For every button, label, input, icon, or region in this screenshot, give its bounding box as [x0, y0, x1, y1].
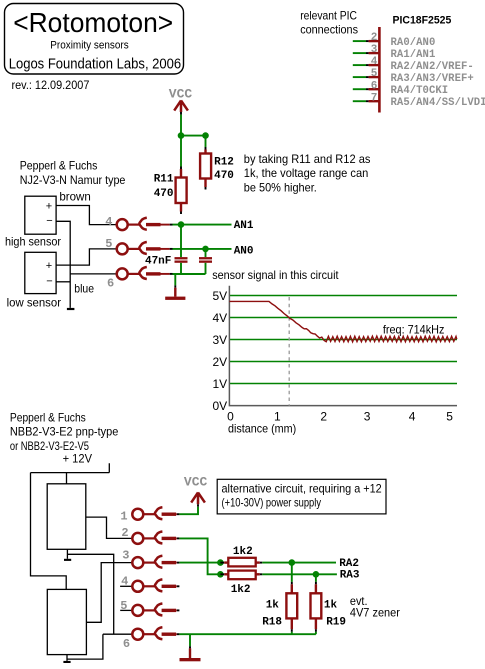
pin 4 wire	[353, 56, 474, 73]
svg-text:0V: 0V	[213, 399, 228, 413]
wire conn3 to RA2 row	[179, 562, 220, 564]
connector pin 5 (bottom)	[132, 604, 179, 616]
svg-text:+: +	[46, 260, 52, 272]
svg-text:RA2/AN2/VREF-: RA2/AN2/VREF-	[391, 61, 474, 73]
node dots at resistor inputs	[217, 559, 224, 566]
graph gridline 1V	[230, 383, 457, 385]
svg-text:4V: 4V	[213, 311, 228, 325]
wire conn6 to gnd bus	[173, 273, 206, 275]
svg-text:3: 3	[371, 44, 378, 56]
svg-text:5V: 5V	[213, 289, 228, 303]
wire box1 gnd to conn6 net	[67, 554, 113, 634]
svg-text:1k, the voltage range can: 1k, the voltage range can	[244, 166, 368, 180]
wire conn1 to VCC	[179, 507, 198, 515]
x axis labels	[227, 410, 453, 424]
pin 6 wire	[353, 80, 448, 97]
svg-text:AN0: AN0	[234, 245, 254, 257]
svg-text:RA1/AN1: RA1/AN1	[391, 49, 436, 61]
svg-text:Pepperl & Fuchs: Pepperl & Fuchs	[20, 158, 98, 172]
y axis labels	[213, 289, 228, 413]
svg-text:NJ2-V3-N Namur type: NJ2-V3-N Namur type	[20, 173, 126, 187]
svg-text:RA4/T0CKI: RA4/T0CKI	[391, 85, 449, 97]
svg-text:R18: R18	[262, 616, 282, 628]
svg-text:relevant PIC: relevant PIC	[300, 8, 357, 22]
wire conn4 stub	[120, 585, 132, 587]
wire low+ to conn5	[56, 249, 117, 265]
sensor high (box)	[25, 196, 56, 234]
svg-text:5: 5	[371, 68, 378, 80]
svg-text:47nF: 47nF	[145, 256, 171, 268]
title block frame	[5, 4, 184, 75]
wire conn6 lead	[103, 633, 133, 635]
annotation note	[244, 152, 371, 195]
connector pin 6 (bottom)	[132, 627, 179, 639]
svg-text:rev.: 12.09.2007: rev.: 12.09.2007	[12, 78, 90, 92]
alternative circuit note box	[217, 479, 386, 514]
svg-text:Pepperl & Fuchs: Pepperl & Fuchs	[10, 410, 86, 424]
wire box2 output to conn3	[86, 563, 132, 623]
svg-text:connections: connections	[300, 23, 358, 37]
svg-text:sensor signal in this circuit: sensor signal in this circuit	[212, 268, 339, 282]
resistor R12	[200, 136, 234, 190]
svg-text:2: 2	[320, 410, 327, 424]
svg-text:1k2: 1k2	[233, 546, 253, 558]
box2 ground stem and bar	[66, 655, 68, 661]
svg-text:alternative circuit, requiring: alternative circuit, requiring a +12	[222, 481, 382, 495]
svg-text:be 50% higher.: be 50% higher.	[244, 180, 317, 194]
connector pin 3 (bottom)	[132, 556, 179, 568]
resistor 1k2 (bottom, to RA3)	[220, 571, 262, 597]
wire AN0	[173, 248, 232, 250]
ground symbol (top)	[165, 274, 185, 300]
svg-text:6: 6	[123, 637, 130, 651]
graph gridline 3V	[230, 339, 457, 341]
svg-text:1k: 1k	[266, 599, 280, 611]
svg-text:4: 4	[121, 575, 128, 589]
resistor R19	[311, 574, 347, 634]
svg-text:NBB2-V3-E2 pnp-type: NBB2-V3-E2 pnp-type	[10, 425, 119, 439]
svg-text:1: 1	[120, 510, 127, 524]
svg-text:6: 6	[371, 80, 378, 92]
svg-text:distance (mm): distance (mm)	[228, 421, 296, 435]
svg-text:1k: 1k	[324, 599, 338, 611]
connector pin 4 (bottom)	[132, 579, 179, 591]
svg-text:R12: R12	[214, 156, 234, 168]
sensor box 2 (pnp)	[47, 589, 86, 654]
pin 2 wire	[353, 32, 436, 49]
wire junction horizontal	[181, 135, 206, 137]
signal trace	[229, 301, 456, 342]
pin 3 wire	[353, 44, 436, 61]
svg-text:3: 3	[122, 548, 129, 562]
svg-text:5: 5	[120, 599, 127, 613]
resistor R18	[262, 563, 297, 635]
svg-text:RA2: RA2	[339, 558, 359, 570]
svg-text:RA3/AN3/VREF+: RA3/AN3/VREF+	[391, 73, 474, 85]
svg-text:R11: R11	[154, 174, 174, 186]
svg-text:−: −	[46, 215, 52, 227]
svg-text:2: 2	[371, 32, 378, 44]
wire RA2	[262, 562, 336, 564]
wire to conn6	[70, 273, 117, 275]
svg-text:AN1: AN1	[234, 220, 254, 232]
svg-text:7: 7	[371, 92, 378, 104]
connector pin 1 (bottom)	[132, 507, 179, 519]
svg-text:<Rotomoton>: <Rotomoton>	[13, 7, 173, 38]
wire low- join	[56, 281, 70, 283]
svg-text:4: 4	[371, 56, 378, 68]
graph axes	[229, 286, 457, 406]
VCC supply symbol (top)	[169, 87, 193, 115]
connector pin 2 (bottom)	[132, 532, 179, 544]
svg-text:470: 470	[214, 170, 234, 182]
svg-text:(+10-30V) power supply: (+10-30V) power supply	[222, 495, 322, 509]
wire conn5 stub	[120, 609, 132, 611]
wire RA3	[262, 573, 337, 575]
+12V supply rail wires	[31, 463, 110, 589]
svg-text:low sensor: low sensor	[7, 295, 61, 309]
svg-text:470: 470	[154, 188, 174, 200]
capacitor C2	[199, 249, 212, 274]
svg-text:4V7 zener: 4V7 zener	[350, 606, 400, 620]
pin 7 wire	[353, 92, 485, 109]
wire high+ to conn4 (brown)	[56, 206, 117, 225]
svg-text:−: −	[46, 275, 52, 287]
box1 ground stem and bar	[66, 549, 68, 559]
svg-text:2: 2	[121, 526, 128, 540]
svg-text:PIC18F2525: PIC18F2525	[393, 15, 452, 27]
resistor R11	[154, 136, 187, 214]
svg-text:by taking R11 and R12 as: by taking R11 and R12 as	[244, 152, 371, 166]
svg-text:3: 3	[364, 410, 371, 424]
svg-text:+: +	[46, 200, 52, 212]
wire box1 output to conn2	[86, 517, 133, 538]
svg-text:high sensor: high sensor	[5, 234, 61, 248]
svg-text:brown: brown	[59, 190, 90, 204]
svg-text:VCC: VCC	[184, 475, 208, 490]
svg-text:2V: 2V	[213, 355, 228, 369]
ground symbol (bottom)	[180, 634, 201, 661]
svg-text:3V: 3V	[213, 333, 228, 347]
ground tap (black bar)	[67, 308, 75, 310]
svg-text:Proximity sensors: Proximity sensors	[50, 40, 129, 52]
connector pin 5	[117, 242, 173, 254]
pin 5 wire	[353, 68, 474, 85]
svg-text:+ 12V: + 12V	[63, 452, 92, 466]
wire high- down	[56, 221, 70, 308]
capacitor C1 47nF	[145, 225, 188, 274]
wire ground bus (bottom)	[179, 633, 316, 635]
svg-text:RA5/AN4/SS/LVDIN: RA5/AN4/SS/LVDIN	[391, 97, 485, 109]
node junction dots	[178, 132, 185, 139]
resistor 1k2 (top, to RA2)	[220, 546, 262, 566]
svg-text:VCC: VCC	[169, 87, 193, 102]
svg-text:5: 5	[446, 410, 453, 424]
graph gridline 4V	[230, 317, 457, 319]
svg-text:blue: blue	[74, 282, 94, 296]
connector pin 6	[117, 267, 173, 279]
svg-text:6: 6	[107, 277, 114, 291]
sensor box 1 (pnp)	[47, 484, 86, 550]
svg-text:RA0/AN0: RA0/AN0	[391, 37, 436, 49]
VCC supply symbol (bottom)	[184, 475, 208, 507]
sensor low (box)	[25, 252, 56, 293]
svg-text:R19: R19	[326, 616, 346, 628]
PIC header area	[300, 8, 451, 112]
svg-text:Logos Foundation Labs, 2006: Logos Foundation Labs, 2006	[9, 56, 182, 73]
dashed marker line	[288, 297, 290, 406]
svg-text:1V: 1V	[213, 377, 228, 391]
connector pin 4	[117, 218, 173, 230]
svg-text:5: 5	[105, 237, 112, 251]
svg-text:1k2: 1k2	[231, 584, 251, 596]
graph gridline 2V	[230, 361, 457, 363]
svg-text:freq: 714kHz: freq: 714kHz	[383, 322, 445, 336]
wire conn2 to RA3 row	[179, 538, 220, 574]
wire AN1	[173, 224, 232, 226]
svg-text:4: 4	[105, 215, 112, 229]
connector bus line	[378, 27, 381, 113]
graph gridline 5V	[230, 295, 457, 297]
svg-text:4: 4	[409, 410, 416, 424]
svg-text:RA3: RA3	[340, 570, 360, 582]
wire box2 gnd to conn6	[67, 634, 103, 659]
wire VCC to junction	[180, 115, 182, 136]
